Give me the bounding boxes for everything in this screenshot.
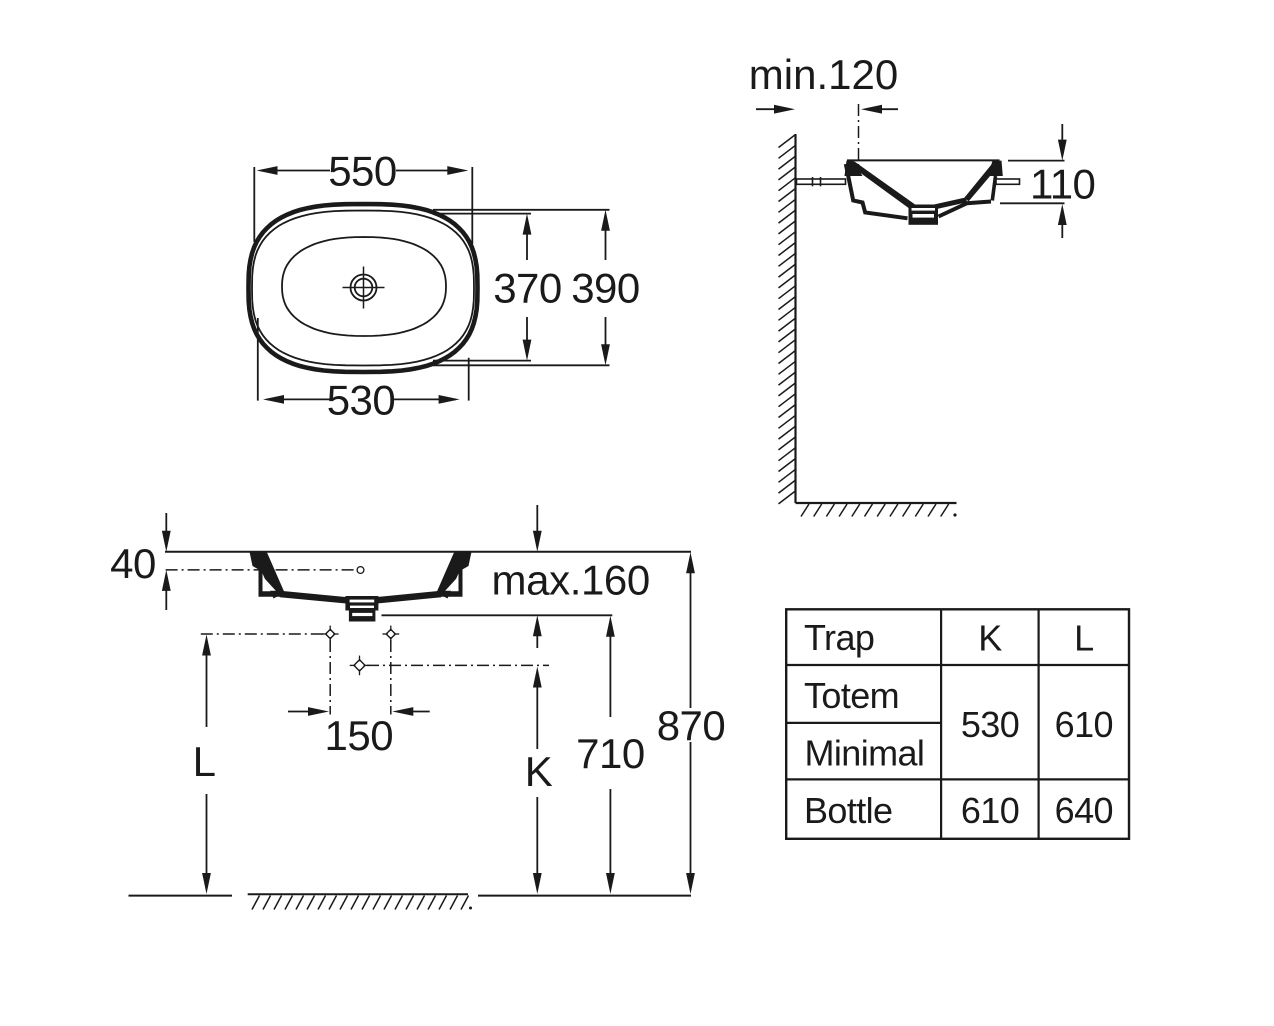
dim 710: bottom arrowhead xyxy=(606,873,615,894)
dim L: lower line xyxy=(206,794,208,876)
svg-text:370: 370 xyxy=(493,265,562,312)
front view: floor hatched segment xyxy=(248,893,468,895)
side view: basin left inner wall xyxy=(848,162,917,211)
front view: basin left corner cap xyxy=(250,552,267,572)
dim 710: upper line xyxy=(609,633,611,717)
top view: drain crosshair vertical xyxy=(363,267,365,309)
front view: basin left outer wall xyxy=(259,566,263,592)
svg-text:110: 110 xyxy=(1030,161,1095,208)
dim 550: left extension line xyxy=(253,167,255,242)
top view: basin outer rim xyxy=(249,204,478,372)
dim 110: top extension line xyxy=(1008,160,1065,162)
front view: basin left inner wall xyxy=(256,553,285,599)
dim 390: bottom arrow line xyxy=(605,317,607,348)
front view: overflow axis (dash-dot) xyxy=(166,569,356,571)
side view: floor hatching xyxy=(801,504,809,517)
dim 390: top arrow line xyxy=(605,227,607,260)
svg-text:Totem: Totem xyxy=(804,675,899,716)
side view: basin outer contour left xyxy=(846,164,908,218)
front view: basin left white notch xyxy=(263,577,276,591)
dim 110: bottom arrowhead xyxy=(1058,204,1067,225)
dim 870: lower line xyxy=(690,742,692,876)
dim L: bottom arrowhead xyxy=(202,873,211,894)
dim 370: bottom arrow line xyxy=(526,317,528,344)
dim 150: right arrow line xyxy=(413,711,430,713)
dim 530: right arrowhead xyxy=(439,395,460,404)
svg-text:530: 530 xyxy=(327,376,396,423)
dim min.120: right arrowhead (points left) xyxy=(861,105,882,114)
dim 110: bottom extension line xyxy=(1000,202,1065,204)
front view: top level line xyxy=(165,551,691,553)
side view: basin bowl floor right xyxy=(935,200,967,207)
side view: basin right corner wedge xyxy=(988,161,1003,176)
front view: basin right inner wall xyxy=(437,553,466,599)
dim min.120: right arrow line xyxy=(880,108,898,110)
front view: basin right outer wall xyxy=(459,566,463,592)
dim 550: right arrow line xyxy=(396,170,464,172)
dim max.160: top arrowhead xyxy=(533,531,542,552)
front view: basin right corner cap xyxy=(455,552,472,572)
front view: drain outlet hole xyxy=(354,660,365,671)
front view: basin right bottom step xyxy=(439,591,463,597)
top view: rim inner edge line xyxy=(252,211,474,366)
dim 390: bottom arrowhead xyxy=(601,344,610,365)
front view: basin right white notch xyxy=(445,577,458,591)
side view: basin right inner wall xyxy=(965,162,1000,202)
dim 550: left arrowhead xyxy=(257,166,278,175)
table: grid xyxy=(786,609,1129,839)
front view: floor line right segment xyxy=(478,895,691,897)
dim 110: top arrowhead xyxy=(1058,140,1067,161)
front view: basin left bottom step xyxy=(259,591,283,597)
svg-text:530: 530 xyxy=(961,704,1019,745)
front view: fixing-holes axis (dash-dot) xyxy=(201,633,324,635)
dim max.160: bottom arrowhead xyxy=(533,615,542,636)
top view: drain crosshair horizontal xyxy=(343,287,385,289)
dim K: lower line xyxy=(536,797,538,876)
dim 370: bottom extension line xyxy=(433,360,531,362)
dim K: bottom arrowhead xyxy=(533,873,542,894)
dim 710: top arrowhead xyxy=(606,616,615,637)
side view: basin centerline (dash-dot) xyxy=(858,104,860,166)
dim 370: top arrowhead xyxy=(523,214,532,235)
dim L: top arrowhead xyxy=(202,635,211,656)
front view: right fixing hole xyxy=(386,629,395,638)
top view: inner bowl outline xyxy=(282,237,446,336)
svg-text:640: 640 xyxy=(1055,790,1113,831)
svg-text:Minimal: Minimal xyxy=(805,733,925,774)
side view: right mounting bolt xyxy=(996,179,1020,184)
dim 550: right extension line xyxy=(471,167,473,244)
svg-text:min.120: min.120 xyxy=(749,51,898,98)
side view: basin left corner wedge xyxy=(845,161,863,176)
dim min.120: left arrow line xyxy=(756,108,778,110)
front view: basin bowl bottom right xyxy=(377,594,442,600)
svg-text:K: K xyxy=(978,618,1002,659)
dim 870: upper line xyxy=(690,570,692,708)
dim 390: top arrowhead xyxy=(601,210,610,231)
dim 530: right arrow line xyxy=(392,398,456,400)
top view: drain outer circle xyxy=(351,275,377,301)
dim L: upper line xyxy=(206,652,208,727)
front view: drain body xyxy=(345,596,378,611)
svg-text:L: L xyxy=(1074,618,1093,659)
svg-text:Trap: Trap xyxy=(804,617,874,658)
front view: left hole centerline (dash-dot) xyxy=(329,640,331,715)
dim 530: left extension line xyxy=(257,318,259,401)
side view: floor line xyxy=(796,502,957,504)
dim 110: top arrow line xyxy=(1061,124,1063,143)
dim 390: bottom extension line xyxy=(433,364,610,366)
dim 370: top extension line xyxy=(433,213,531,215)
dim 390: top extension line xyxy=(433,209,610,211)
front view: floor hatching xyxy=(252,896,260,910)
front view: floor hatch end dot xyxy=(469,907,472,910)
dim 150: left arrowhead (points right) xyxy=(308,707,329,716)
top view: drain inner circle xyxy=(355,279,373,297)
dim K: upper line xyxy=(536,684,538,749)
dim 870: top arrowhead xyxy=(686,552,695,573)
svg-text:710: 710 xyxy=(576,730,645,777)
svg-text:870: 870 xyxy=(657,702,726,749)
dim 530: left arrowhead xyxy=(263,395,284,404)
dim 40: top arrowhead xyxy=(162,531,171,552)
svg-text:150: 150 xyxy=(325,712,394,759)
front view: floor line left segment xyxy=(129,895,233,897)
dim 110: bottom arrow line xyxy=(1061,222,1063,238)
dim 870: bottom arrowhead xyxy=(686,873,695,894)
dim max.160: top arrow line xyxy=(536,505,538,534)
svg-text:max.160: max.160 xyxy=(492,557,650,604)
svg-text:K: K xyxy=(525,748,553,795)
dim 40: bottom arrowhead xyxy=(162,570,171,591)
side view: left mounting bolt xyxy=(797,179,846,184)
side view: floor hatch end dot xyxy=(953,513,956,516)
dim 40: bottom arrow line xyxy=(165,588,167,610)
front view: overflow hole circle xyxy=(357,567,364,574)
side view: wall hatching xyxy=(779,135,796,148)
dim max.160: bottom arrow line xyxy=(536,633,538,648)
front view: left fixing hole xyxy=(326,629,335,638)
dim 370: bottom arrowhead xyxy=(523,340,532,361)
svg-text:40: 40 xyxy=(110,540,156,587)
dim 530: right extension line xyxy=(468,358,470,401)
dim 150: left arrow line xyxy=(288,711,308,713)
front view: outlet axis (dash-dot) xyxy=(367,664,549,666)
dim K: top arrowhead xyxy=(533,667,542,688)
side view: basin rim line xyxy=(847,159,1000,161)
side view: drain body xyxy=(909,205,939,225)
dim 710: lower line xyxy=(609,789,611,876)
dim 40: top arrow line xyxy=(165,513,167,534)
dim 150: right arrowhead (points left) xyxy=(392,707,413,716)
dim 550: left arrow line xyxy=(261,170,330,172)
dim 550: right arrowhead xyxy=(447,166,468,175)
svg-text:550: 550 xyxy=(328,147,397,194)
svg-text:610: 610 xyxy=(1055,704,1113,745)
dim max.160: bottom line xyxy=(382,614,613,616)
side view: basin right outer wall xyxy=(992,176,995,201)
front view: basin bowl bottom left xyxy=(280,594,347,600)
svg-text:390: 390 xyxy=(571,265,640,312)
svg-text:610: 610 xyxy=(961,790,1019,831)
side view: wall line xyxy=(794,134,796,503)
dim 370: top arrow line xyxy=(526,231,528,260)
svg-text:L: L xyxy=(193,738,216,785)
svg-text:Bottle: Bottle xyxy=(804,790,892,831)
front view: right hole centerline (dash-dot) xyxy=(390,640,392,715)
side view: basin outer contour right xyxy=(939,202,992,217)
dim 530: left arrow line xyxy=(267,398,330,400)
dim min.120: left arrowhead (points right at wall) xyxy=(774,105,795,114)
